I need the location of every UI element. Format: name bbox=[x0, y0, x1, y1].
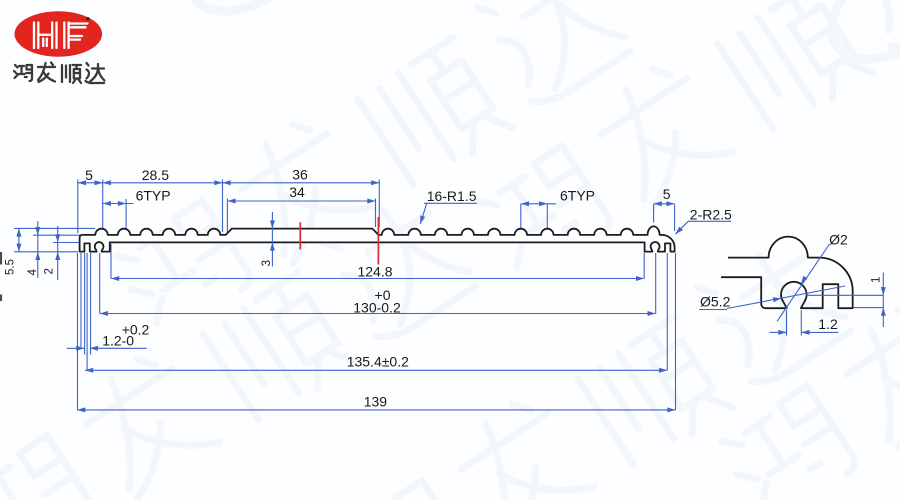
svg-text:16-R1.5: 16-R1.5 bbox=[427, 188, 477, 204]
svg-text:124.8: 124.8 bbox=[357, 264, 392, 280]
svg-text:28.5: 28.5 bbox=[142, 167, 169, 183]
svg-text:+0.2: +0.2 bbox=[122, 322, 150, 338]
svg-text:36: 36 bbox=[292, 166, 308, 182]
svg-text:6TYP: 6TYP bbox=[136, 187, 171, 203]
svg-text:6TYP: 6TYP bbox=[560, 188, 595, 204]
svg-text:5: 5 bbox=[85, 167, 93, 183]
svg-text:5.5: 5.5 bbox=[5, 259, 17, 275]
svg-text:1.2: 1.2 bbox=[818, 316, 838, 332]
svg-text:2: 2 bbox=[44, 268, 56, 274]
svg-text:Ø2: Ø2 bbox=[829, 232, 848, 248]
svg-text:Ø5.2: Ø5.2 bbox=[700, 294, 731, 310]
svg-text:4: 4 bbox=[27, 269, 39, 276]
svg-text:139: 139 bbox=[364, 394, 388, 410]
svg-text:135.4±0.2: 135.4±0.2 bbox=[347, 354, 409, 370]
svg-text:34: 34 bbox=[289, 184, 305, 200]
svg-text:3: 3 bbox=[261, 260, 273, 266]
svg-text:2-R2.5: 2-R2.5 bbox=[690, 206, 732, 222]
svg-text:+0: +0 bbox=[375, 287, 391, 303]
svg-text:5: 5 bbox=[663, 186, 671, 202]
svg-text:1: 1 bbox=[871, 277, 883, 283]
